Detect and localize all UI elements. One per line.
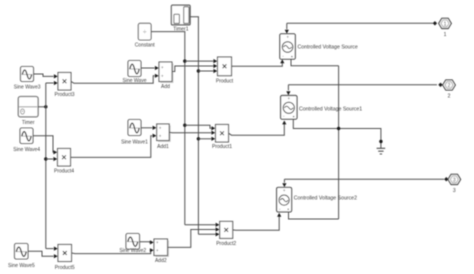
wire CVS1 minus to ground <box>293 119 381 148</box>
wire bus-A to Product1 in1 <box>185 125 212 128</box>
product block Product3 <box>58 73 71 91</box>
wire timer-bus to Product5 in1 <box>46 248 54 250</box>
product block Product <box>218 57 232 76</box>
svg-text:+: + <box>286 35 289 40</box>
svg-text:Sine Wave5: Sine Wave5 <box>8 263 35 269</box>
junction diamond at port3 <box>444 177 448 181</box>
svg-text:Product5: Product5 <box>55 265 75 271</box>
svg-text:Controlled Voltage Source: Controlled Voltage Source <box>298 44 358 50</box>
wire CVS1 plus to port2 <box>288 85 437 91</box>
wire Add1 to Product1 in2 <box>169 131 211 133</box>
svg-text:2: 2 <box>448 94 451 100</box>
svg-text:Product4: Product4 <box>54 169 74 175</box>
svg-text:+: + <box>159 133 162 138</box>
wire Product3 to Add in2 <box>71 76 155 84</box>
product block Product5 <box>58 245 72 262</box>
svg-text:+: + <box>287 97 290 102</box>
wire Product5 to Add2 in2 <box>72 250 151 253</box>
wire CVS minus <box>291 59 339 66</box>
Timer block <box>18 97 38 117</box>
wire CVS2 plus to port3 <box>284 179 444 183</box>
wire timer bus vertical <box>45 83 47 249</box>
wire bus-B vertical <box>197 17 199 235</box>
product block Product4 <box>58 149 71 167</box>
sine-wave source block Sine Wave1 <box>128 120 141 136</box>
wire Product to CVS control input <box>232 63 283 66</box>
sine-wave source block Sine Wave5 <box>15 244 29 260</box>
junction on ground lead <box>379 140 382 143</box>
wire bus-A vertical <box>184 32 186 225</box>
svg-text:1: 1 <box>444 32 447 38</box>
svg-text:Sine Wave3: Sine Wave3 <box>14 85 41 91</box>
svg-text:Product2: Product2 <box>216 241 236 247</box>
wire Sine Wave3 to Product3 in1 <box>34 74 54 76</box>
svg-text:Controlled Voltage Source1: Controlled Voltage Source1 <box>299 106 362 112</box>
output port 1 <box>439 18 452 28</box>
junction bus-B to Product in3 <box>197 69 200 72</box>
junction diamond at port1 <box>433 21 437 25</box>
wire Add to Product in2 <box>172 66 213 72</box>
junction timer-bus at Timer output <box>44 105 47 108</box>
svg-text:Sine Wave1: Sine Wave1 <box>121 140 148 146</box>
junction bus-A to Product in1 <box>183 59 186 62</box>
svg-text:+: + <box>156 248 159 253</box>
sine-wave source block Sine Wave3 <box>21 67 34 82</box>
wire Product1 to CVS1 control input <box>229 124 285 135</box>
wire minus bus vertical <box>338 66 340 219</box>
wire Constant to bus-A <box>151 31 185 33</box>
output port 2 <box>443 80 456 90</box>
wire Timer1 to bus-B <box>190 16 198 18</box>
svg-text:+: + <box>161 74 164 79</box>
svg-text:3: 3 <box>453 188 456 194</box>
junction timer-bus to Product4 in2 <box>44 157 47 160</box>
svg-text:+: + <box>161 65 164 70</box>
wire bus-B to Product1 in3 <box>198 138 211 140</box>
svg-text:Controlled Voltage Source2: Controlled Voltage Source2 <box>294 196 357 202</box>
svg-text:+: + <box>156 240 159 245</box>
svg-text:Add: Add <box>161 84 170 90</box>
controlled voltage source U3 <box>277 187 292 212</box>
svg-text:+: + <box>159 126 162 131</box>
controlled voltage source U2 <box>281 96 297 120</box>
sum block Add <box>160 63 173 83</box>
wire Product2 to CVS2 control input <box>233 216 280 230</box>
wire Sine Wave1 to Add1 in1 <box>141 127 152 129</box>
svg-text:Timer: Timer <box>22 120 35 126</box>
sum block Add1 <box>158 125 171 141</box>
svg-text:1: 1 <box>444 21 447 27</box>
product block Product1 <box>216 125 229 143</box>
sine-wave source block Sine Wave2 <box>126 234 140 250</box>
product block Product2 <box>220 221 233 238</box>
wire Add2 to Product2 in2 <box>168 230 216 248</box>
sine-wave source block Sine Wave <box>128 61 141 77</box>
sum block Add2 <box>155 240 169 257</box>
svg-text:Constant: Constant <box>135 43 156 49</box>
svg-text:Product1: Product1 <box>212 144 232 150</box>
svg-text:Add1: Add1 <box>157 144 169 150</box>
wire timer-bus to Product4 in2 <box>46 158 53 160</box>
svg-text:Sine Wave4: Sine Wave4 <box>13 147 40 153</box>
wire bus-A to Product2 in1 <box>185 224 216 226</box>
subsystem block Timer1 <box>171 5 190 25</box>
constant block Constant <box>138 23 151 40</box>
svg-text:+: + <box>283 189 286 194</box>
svg-text:Add2: Add2 <box>155 258 167 264</box>
wire Timer output to bus <box>38 106 46 108</box>
wire Product4 to Add1 in2 <box>71 136 153 158</box>
junction bus-A to Product1 in1 <box>183 124 186 127</box>
wire timer-bus to Product3 in2 <box>46 82 54 84</box>
wire CVS2 minus <box>289 212 339 219</box>
svg-text:3: 3 <box>453 177 456 183</box>
svg-text:Product3: Product3 <box>54 92 74 98</box>
output port 3 <box>448 174 461 184</box>
junction bus-B to Product1 in3 <box>197 137 200 140</box>
wire Sine Wave4 to Product4 in1 <box>33 136 53 153</box>
wire Sine Wave2 to Add2 in1 <box>140 241 150 244</box>
wire bus-B to Product2 in3 <box>198 233 215 235</box>
junction diamond at port2 <box>438 83 442 87</box>
wire bus-A to Product in1 <box>185 60 214 62</box>
wire CVS plus to port1 <box>287 23 433 29</box>
wire Sine Wave to Add in1 <box>141 67 155 69</box>
svg-text:Product: Product <box>216 79 234 85</box>
junction minus bus and CVS1 minus <box>337 127 340 130</box>
wire bus-B to Product in3 <box>198 70 213 72</box>
svg-text:÷: ÷ <box>143 29 147 36</box>
wire Sine Wave5 to Product5 in2 <box>28 251 54 256</box>
controlled voltage source U1 <box>280 34 296 59</box>
sine-wave source block Sine Wave4 <box>20 128 33 144</box>
svg-text:2: 2 <box>448 83 451 89</box>
ground symbol <box>377 148 386 154</box>
